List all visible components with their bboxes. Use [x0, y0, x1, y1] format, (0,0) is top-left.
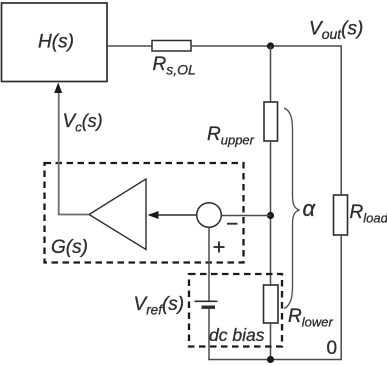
- wire summing junction down to battery: [208, 227, 210, 301]
- wire battery to bottom rail: [208, 308, 210, 360]
- summing junction U1: [197, 203, 222, 228]
- node bottom junction: [267, 356, 274, 363]
- brace for alpha: [284, 108, 300, 309]
- resistor Rupper: [207, 102, 278, 148]
- wire Rs,OL to top-right corner: [191, 45, 341, 47]
- wire Vout node down to Rupper: [270, 46, 272, 102]
- svg-text:dc bias: dc bias: [209, 325, 265, 345]
- arrowhead into H(s): [54, 83, 62, 94]
- svg-text:0: 0: [327, 338, 338, 359]
- resistor Rload: [334, 195, 387, 235]
- dashed box dc bias: [189, 274, 282, 347]
- svg-text:G(s): G(s): [51, 237, 88, 258]
- block H(s): [2, 3, 108, 82]
- svg-text:α: α: [303, 196, 317, 221]
- resistor Rs,OL: [152, 41, 196, 78]
- wire H(s) output to Rs,OL: [107, 45, 152, 47]
- label minus: [227, 223, 238, 225]
- wire Rload bottom to bottom rail: [340, 235, 342, 360]
- node feedback junction: [267, 212, 274, 219]
- wire Rupper to Rlower through middle node: [270, 141, 272, 285]
- wire Rlower bottom to bottom rail: [270, 323, 272, 360]
- op-amp G triangle: [89, 179, 146, 250]
- wire right branch down to Rload: [340, 45, 342, 195]
- arrow summing junction to op-amp: [148, 211, 197, 219]
- resistor Rlower: [264, 285, 334, 330]
- wire summing junction to feedback node: [221, 215, 270, 217]
- svg-text:H(s): H(s): [38, 32, 74, 53]
- dashed box G(s): [45, 163, 244, 263]
- svg-text:Vc(s): Vc(s): [63, 111, 103, 135]
- bottom rail wire: [208, 359, 342, 361]
- wire op-amp output to left: [59, 214, 89, 216]
- battery Vref: [195, 301, 218, 307]
- wire Vc vertical up to H(s): [58, 90, 60, 215]
- label plus: [214, 242, 225, 253]
- node Vout junction: [267, 42, 274, 49]
